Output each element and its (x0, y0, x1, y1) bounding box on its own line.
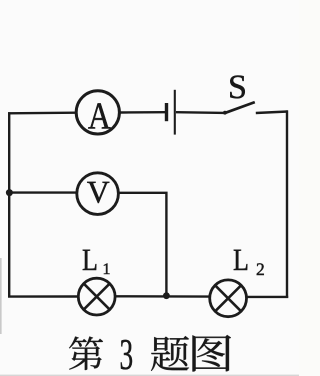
wire: ammeter to battery (120, 111, 165, 114)
wire: battery to switch pivot (176, 111, 225, 114)
lamp L1 cross (84, 284, 110, 310)
wire: voltmeter branch right with corner down (119, 193, 166, 296)
caption character 第 (69, 337, 103, 370)
scan artifact: left edge smudge (0, 258, 2, 334)
node: junction dot on bottom conductor (163, 292, 170, 299)
battery positive long plate (174, 90, 176, 135)
svg-text:A: A (88, 96, 112, 138)
battery negative short plate (165, 103, 168, 121)
switch lever arm (224, 102, 254, 113)
svg-text:2: 2 (256, 259, 265, 279)
wire: top-left horizontal to ammeter (8, 111, 76, 114)
switch pivot nub (223, 111, 227, 115)
svg-text:L: L (233, 242, 249, 277)
wire: switch contact to top-right corner (256, 112, 288, 114)
lamp L1 circle (78, 278, 115, 315)
ammeter A1 circle (76, 91, 119, 134)
scan artifact: bottom edge line (0, 375, 299, 376)
lamp L2 circle (210, 280, 247, 317)
wire: right vertical conductor (286, 110, 288, 298)
svg-text:V: V (87, 175, 110, 210)
wire: lamp L1 to lamp L2 (116, 295, 209, 298)
wire: lamp L2 to bottom-right corner (247, 296, 288, 298)
svg-text:1: 1 (103, 261, 111, 278)
wire: left vertical conductor (8, 112, 10, 297)
node: junction dot on left conductor (6, 189, 13, 196)
lamp L2 cross (215, 285, 241, 311)
wire: voltmeter branch left (9, 191, 76, 193)
wire: bottom left horizontal to lamp L1 (8, 295, 78, 298)
svg-text:S: S (228, 69, 247, 106)
svg-text:3: 3 (119, 330, 133, 376)
svg-text:L: L (82, 242, 98, 277)
voltmeter V1 circle (77, 173, 119, 215)
caption character 图 (193, 335, 232, 371)
caption character 题 (151, 336, 189, 371)
